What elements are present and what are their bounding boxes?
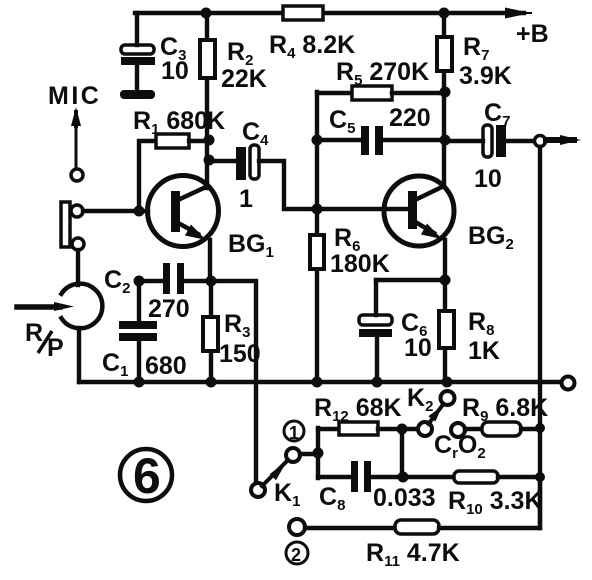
- wire R12/C8 box left edge: [316, 428, 320, 478]
- svg-text:P: P: [47, 334, 64, 362]
- capacitor C5: [317, 138, 444, 142]
- wire C4 to BG2 base: [259, 161, 409, 209]
- node R10 right: [535, 472, 545, 482]
- node base BG2 row: [312, 204, 323, 215]
- node rail-R2: [201, 8, 212, 19]
- capacitor C4: [210, 159, 236, 163]
- wire right vertical: [538, 147, 542, 528]
- node base BG1: [134, 206, 145, 217]
- svg-text:1K: 1K: [468, 337, 500, 365]
- resistor R6: [310, 235, 324, 269]
- wire jack to base: [83, 209, 148, 213]
- node R9 right: [535, 423, 545, 433]
- svg-text:MIC: MIC: [48, 82, 101, 110]
- svg-text:270: 270: [148, 295, 190, 323]
- node +B arrowhead: [506, 12, 531, 14]
- switch K1: [251, 483, 265, 497]
- svg-text:220: 220: [389, 104, 431, 132]
- capacitor C7: [444, 139, 534, 143]
- svg-text:10: 10: [404, 334, 432, 362]
- capacitor C3: [121, 45, 154, 54]
- svg-text:10: 10: [161, 57, 189, 85]
- svg-text:150: 150: [219, 340, 261, 368]
- resistor R10: [403, 475, 454, 479]
- wire R1 right: [189, 139, 207, 143]
- node C4 tap: [204, 155, 215, 166]
- node terminal 1 circle: [284, 421, 304, 441]
- node R12-K2: [397, 424, 408, 435]
- wire C6/R8 top row: [376, 278, 445, 282]
- node MIC arrowhead: [71, 107, 81, 126]
- wire emitter row to K1 drop: [211, 281, 256, 484]
- resistor R5: [317, 91, 352, 95]
- capacitor C8: [318, 475, 403, 479]
- capacitor C1: [137, 281, 141, 321]
- svg-text:1: 1: [289, 423, 299, 443]
- node jack sleeve terminal: [72, 238, 84, 250]
- node C8-R10: [398, 472, 409, 483]
- resistor R1: [156, 134, 189, 148]
- resistor R7: [437, 37, 452, 71]
- svg-text:R10 3.3K: R10 3.3K: [448, 487, 543, 518]
- transistor BG2: [384, 176, 454, 246]
- wire MIC stem: [75, 126, 78, 169]
- node rail-R8: [442, 377, 453, 388]
- wire top +B rail: [135, 11, 524, 15]
- node R7-R5: [440, 87, 451, 98]
- node mic input arrow: [17, 304, 60, 310]
- svg-text:680: 680: [145, 352, 187, 380]
- wire BG1 emitter down: [208, 240, 212, 281]
- jack J1: [61, 202, 70, 247]
- resistor R9: [465, 427, 482, 431]
- node rail-R7: [439, 8, 450, 19]
- node MIC terminal: [71, 169, 83, 181]
- node C2 left: [134, 276, 145, 287]
- svg-text:R1 680: R1 680: [133, 107, 208, 138]
- wire mid vertical (R5/C5/base/R6): [315, 92, 319, 382]
- svg-text:+B: +B: [516, 20, 549, 48]
- resistor R3: [209, 281, 213, 382]
- wire BG2 emitter down: [443, 240, 447, 280]
- svg-text:22K: 22K: [221, 65, 267, 93]
- transistor BG1: [148, 176, 219, 247]
- node rail-C1: [134, 377, 145, 388]
- node emitter BG2: [440, 275, 451, 286]
- node emitter-C2: [206, 276, 217, 287]
- wire C3 branch from rail: [135, 13, 139, 45]
- wire jack to mic: [76, 250, 80, 285]
- switch K2: [441, 391, 455, 405]
- wire R1 left leg: [139, 141, 156, 211]
- wire mic to ground rail: [77, 328, 81, 382]
- svg-text:R: R: [25, 319, 43, 347]
- node output arrow stub: [546, 137, 574, 143]
- node C5 left: [312, 135, 323, 146]
- capacitor C6: [374, 280, 378, 315]
- svg-text:0.033: 0.033: [373, 484, 436, 512]
- figure number 6 circle: [120, 449, 172, 501]
- node terminal 2 circle: [286, 542, 308, 564]
- wire K1 to box: [300, 452, 318, 456]
- svg-text:180K: 180K: [330, 250, 390, 278]
- svg-text:R9 6.8K: R9 6.8K: [462, 394, 548, 425]
- svg-text:10: 10: [474, 165, 502, 193]
- node R11 left terminal: [289, 519, 305, 535]
- node C5-collector: [440, 135, 451, 146]
- svg-text:6: 6: [133, 448, 161, 504]
- node rail-R6: [312, 377, 323, 388]
- node K1-box: [313, 448, 324, 459]
- svg-text:1: 1: [239, 185, 253, 213]
- wire bottom rail: [79, 380, 561, 384]
- svg-text:K: K: [207, 107, 225, 135]
- capacitor C2: [139, 279, 211, 283]
- resistor R8: [443, 280, 447, 382]
- wire R12 node drop: [400, 430, 404, 477]
- node bottom-right terminal: [562, 377, 575, 390]
- svg-text:3.9K: 3.9K: [459, 62, 512, 90]
- resistor R11: [305, 526, 395, 530]
- svg-text:R11 4.7K: R11 4.7K: [366, 539, 460, 570]
- node R1-R2: [204, 135, 215, 146]
- node jack tip terminal: [71, 205, 83, 217]
- resistor R4: [283, 6, 323, 20]
- wire R2 branch: [205, 13, 209, 188]
- svg-text:2: 2: [291, 545, 301, 565]
- node CrO2 terminal: [451, 423, 465, 437]
- node rail-R3: [206, 377, 217, 388]
- resistor R2: [200, 40, 215, 78]
- resistor R12: [318, 427, 339, 431]
- svg-text:R12 68K: R12 68K: [314, 394, 402, 425]
- node output terminal: [535, 136, 546, 147]
- microphone R/P: [61, 284, 102, 329]
- wire R7 branch: [442, 13, 446, 186]
- node rail-C6: [372, 377, 383, 388]
- svg-text:R5 270K: R5 270K: [336, 58, 429, 89]
